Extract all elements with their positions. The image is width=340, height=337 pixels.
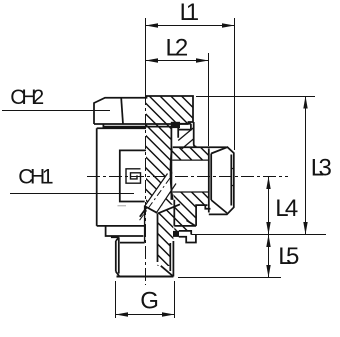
drawing outlines [94,96,234,277]
stud right chamfer [161,266,174,277]
axial bore below [146,206,158,276]
funnel cone under seat [158,204,181,213]
stud thread runout line [120,242,145,244]
body bottom edge [97,225,145,227]
bolt head hex face line [121,98,123,124]
body right edge above port [194,122,197,147]
port outline right [209,147,234,215]
svg-text:CH1: CH1 [18,166,53,189]
svg-text:CH2: CH2 [10,86,44,109]
port inner face line [230,155,232,206]
seal housing step (right of o-ring 1) [178,122,191,138]
CH2 leader line [2,110,110,112]
svg-text:G: G [140,288,159,315]
dimension G [116,312,175,316]
washer under head [103,124,171,127]
port nut top chamfer [211,147,227,153]
svg-text:L2: L2 [166,35,189,62]
L1 extension line right [234,18,236,150]
CH1 leader line [10,193,134,195]
window rectangle [120,150,146,201]
body top face left [97,127,146,129]
passage axis centerline [139,178,170,221]
port top edge [173,146,227,148]
L1/L2 extension line left (bolt axis above drawing) [145,18,147,92]
white overlays: bores and clearances [145,128,196,276]
o-ring seal 2 (black) [173,231,179,237]
L5 bottom extension line [178,277,281,279]
o-ring seal 1 (black) [171,122,180,128]
body bore thread chamfer [178,128,194,150]
bolt-to-body clearance gap [171,128,178,148]
dimension L5 [266,235,270,278]
hex socket spiral [126,169,141,183]
seat bore top edge [172,159,209,161]
shared extension line L3/L4 bottom, L5 top [191,234,326,236]
port nut bottom chamfer [211,200,227,213]
stud thread left [116,237,119,273]
bolt head outline [94,96,193,124]
svg-text:L5: L5 [278,243,299,270]
stud bottom edge [117,276,174,278]
seat bore bottom edge [173,191,209,193]
horizontal centerline [87,176,288,178]
dimension L3 [303,96,307,235]
dimension L1 [146,23,235,27]
seal housing steps (right of o-ring 2) [179,231,196,243]
bolt head bottom edge [94,123,189,125]
L2 extension line right [208,53,210,146]
cross passage bore [145,174,176,214]
stud thread right [170,241,173,277]
G extension lines [115,281,117,318]
port nut left edge double line [209,149,211,213]
dimension L2 [146,58,209,62]
faint counterbore line [118,205,127,207]
cross passage walls [145,174,176,214]
port bottom interface [196,205,210,226]
washer top right segment [174,225,196,227]
stud left chamfer [116,272,120,277]
body left edge [96,128,98,226]
tube lip curved edge [170,149,172,200]
L3 top extension line [196,96,315,98]
bore left solid edge [144,206,146,243]
white chamfer triangle below port [186,221,195,226]
vertical centerline [145,92,147,285]
body chamfer at bottom right [187,220,196,226]
stud bore wall [157,214,159,262]
svg-text:L3: L3 [311,154,332,181]
drill cone under seat [145,204,180,214]
svg-text:L1: L1 [180,0,200,26]
svg-text:L4: L4 [275,195,298,222]
bolt shank thread lines [171,128,174,226]
drill tip lower line [140,207,147,217]
drill tip face [145,206,157,213]
washer2 left profile [106,226,144,238]
dimension L4 [266,177,270,235]
